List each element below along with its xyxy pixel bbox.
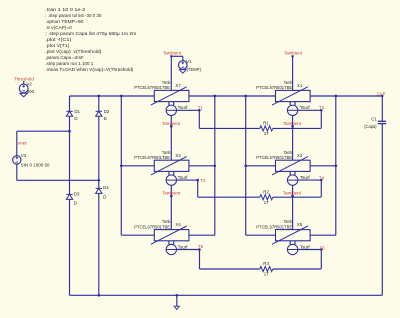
wire vertical col 121 <box>120 96 122 235</box>
resistor R2 <box>260 189 273 204</box>
wire T-box right row3 <box>320 250 322 270</box>
wire T-box right row2 <box>320 180 322 197</box>
voltage source V3 <box>13 153 50 168</box>
svg-text:D3: D3 <box>74 192 80 197</box>
wire vertical col 336 <box>335 96 337 235</box>
svg-text:X5: X5 <box>297 222 303 227</box>
voltage source V1 <box>179 59 202 72</box>
ground symbol bottom <box>176 295 178 306</box>
wire T drop row1 <box>198 110 200 128</box>
svg-text:Tsurf: Tsurf <box>300 244 311 249</box>
wire vnet to bridge bottom <box>17 179 99 181</box>
svg-text:X1: X1 <box>297 83 303 88</box>
svg-text:R2: R2 <box>263 189 269 194</box>
svg-text:X2: X2 <box>175 153 181 158</box>
wire Tsurf circle to next Tamb (left row2) <box>170 185 172 229</box>
svg-text:D: D <box>103 195 106 200</box>
svg-text:D: D <box>74 200 77 205</box>
svg-text:C1: C1 <box>371 117 377 122</box>
svg-text:Tambient: Tambient <box>284 51 303 56</box>
PTC thermistor X7 <box>134 80 189 116</box>
wire vnet to bridge top <box>17 130 70 132</box>
svg-text:T3: T3 <box>319 105 325 110</box>
junction D2 top rail <box>97 95 100 98</box>
junction D1/D3 with vnet <box>68 130 71 133</box>
svg-text:PTCEL67R501TBE: PTCEL67R501TBE <box>134 224 170 229</box>
wire R row2 <box>198 196 260 198</box>
svg-text:.plot V(cap) v(Threshold): .plot V(cap) v(Threshold) <box>45 49 102 54</box>
junction D2/D4 with vnet <box>97 179 100 182</box>
resistor R3 <box>260 261 273 276</box>
wire D2 column <box>98 96 100 111</box>
svg-text:X3: X3 <box>297 153 303 158</box>
PTC thermistor X1 <box>256 80 310 116</box>
wire row2 X2 right pin <box>189 165 215 167</box>
voltage source V2 <box>19 81 34 94</box>
svg-text:V1: V1 <box>186 59 192 64</box>
wire Tsurf circle to next Tamb (right row2) <box>292 185 294 229</box>
ground for V2 <box>20 93 28 97</box>
svg-text:PTCEL67R501TBE: PTCEL67R501TBE <box>134 85 170 90</box>
svg-text:.ic v(CAP)=0: .ic v(CAP)=0 <box>45 25 72 30</box>
svg-text:T4: T4 <box>319 175 325 180</box>
junction D4 bottom rail <box>97 294 100 297</box>
svg-text:; .step param Capa list 470µ 6: ; .step param Capa list 470µ 680µ 1m 2m <box>45 31 136 36</box>
svg-text:T2: T2 <box>200 178 206 183</box>
svg-text:V3: V3 <box>21 153 27 158</box>
PTC thermistor X4 <box>134 219 189 255</box>
wire R row1 <box>199 127 259 129</box>
svg-text:X7: X7 <box>175 83 181 88</box>
svg-text:; .step param tol list -30 0 3: ; .step param tol list -30 0 30 <box>45 13 102 18</box>
svg-text:.plot V(T1): .plot V(T1) <box>45 43 70 48</box>
svg-text:D2: D2 <box>104 109 110 114</box>
svg-text:{Capa}: {Capa} <box>364 124 377 129</box>
wire bottom rail <box>70 294 383 296</box>
wire Tsurf circle to next Tamb (left row1) <box>170 116 172 161</box>
svg-text:Tambient: Tambient <box>163 51 182 56</box>
svg-text:PTCEL67R501TBE: PTCEL67R501TBE <box>256 85 292 90</box>
diode D4 <box>96 185 110 200</box>
svg-text:.option TEMP=90: .option TEMP=90 <box>45 19 84 24</box>
svg-text:R1: R1 <box>263 121 269 126</box>
wire vnet vertical bottom <box>16 164 18 180</box>
svg-text:X4: X4 <box>175 222 181 227</box>
wire vnet vertical top <box>16 131 18 156</box>
svg-text:.plot -I(C1): .plot -I(C1) <box>45 37 72 42</box>
svg-text:Tsurf: Tsurf <box>300 175 311 180</box>
svg-text:R3: R3 <box>263 261 269 266</box>
svg-text:Tsurf: Tsurf <box>178 105 189 110</box>
PTC thermistor X5 <box>256 219 310 255</box>
wire R row3 <box>200 268 260 270</box>
svg-text:{TEMP}: {TEMP} <box>187 67 202 72</box>
svg-text:D1: D1 <box>74 109 80 114</box>
wire Tambient label to X7 Tamb <box>170 56 172 90</box>
PTC thermistor X2 <box>134 150 189 186</box>
wire Tsurf left row3 <box>177 249 200 251</box>
svg-text:1T: 1T <box>264 200 269 205</box>
svg-text:T5: T5 <box>198 244 204 249</box>
svg-text:SIN 0 1000 50: SIN 0 1000 50 <box>21 163 50 168</box>
diode D2 <box>96 109 110 121</box>
wire Tambient label to X1 Tamb <box>292 56 294 90</box>
svg-text:1T: 1T <box>264 131 269 136</box>
svg-text:.step param run 1 100 1: .step param run 1 100 1 <box>45 61 94 66</box>
wire top rail <box>70 95 155 97</box>
ground for V1 <box>179 70 186 74</box>
wire row2 X3 left pin <box>246 165 276 167</box>
wire T drop row2 <box>197 180 199 197</box>
wire T drop row3 <box>199 250 201 270</box>
svg-text:PTCEL67R501TBE: PTCEL67R501TBE <box>256 155 292 160</box>
svg-text:PTCEL67R501TBE: PTCEL67R501TBE <box>256 224 292 229</box>
svg-text:D: D <box>74 116 77 121</box>
svg-text:1T: 1T <box>264 272 269 277</box>
spice directive text block <box>45 7 136 72</box>
svg-text:D: D <box>104 116 107 121</box>
wire CAP column top <box>381 96 383 121</box>
PTC thermistor X3 <box>256 150 310 186</box>
svg-text:.tran 1 10 0 1e-2: .tran 1 10 0 1e-2 <box>45 7 86 12</box>
svg-text:.meas TLOAD when V(cap)=V(Thre: .meas TLOAD when V(cap)=V(Threshold) <box>45 67 134 72</box>
wire D1 column <box>69 96 71 111</box>
svg-text:D4: D4 <box>103 185 109 190</box>
svg-text:Tsurf: Tsurf <box>178 175 189 180</box>
wire stub to V1 <box>171 55 183 57</box>
svg-text:.param Capa =2mF: .param Capa =2mF <box>45 55 84 60</box>
svg-text:Tsurf: Tsurf <box>178 244 189 249</box>
wire row2 left pin <box>121 165 154 167</box>
wire CAP column bottom <box>381 124 383 295</box>
capacitor C1 <box>364 117 386 129</box>
svg-text:T6: T6 <box>320 245 326 250</box>
svg-text:PTCEL67R501TBE: PTCEL67R501TBE <box>134 155 170 160</box>
wire vertical col 246 <box>245 96 247 235</box>
resistor R1 <box>260 121 273 136</box>
wire Tsurf left row1 <box>177 109 200 111</box>
wire Tsurf circle to next Tamb (right row1) <box>292 116 294 161</box>
svg-text:Tsurf: Tsurf <box>300 105 311 110</box>
wire vertical col 215 <box>214 96 216 235</box>
diode D3 <box>66 192 80 206</box>
svg-text:vnet: vnet <box>18 141 28 146</box>
wire Tsurf left row2 <box>177 179 198 181</box>
wire T-box right row1 <box>320 110 322 128</box>
wire row2 X5 right pin <box>310 165 336 167</box>
svg-text:CAP: CAP <box>377 91 386 96</box>
diode D1 <box>66 109 80 121</box>
svg-text:V2: V2 <box>27 81 33 86</box>
